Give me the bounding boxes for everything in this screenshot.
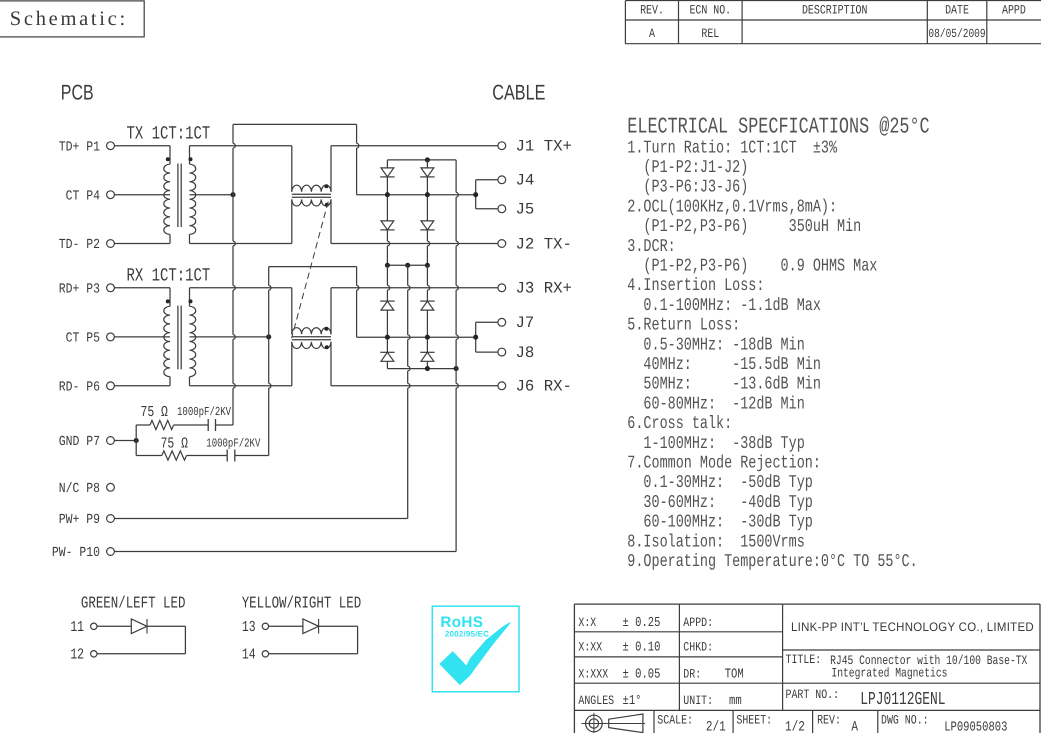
svg-text:TITLE:: TITLE: [786, 652, 822, 667]
wire RX secondary bottom to choke [190, 385, 292, 387]
wire R1 to C1 [174, 424, 209, 426]
svg-text:9.Operating Temperature:0°C TO: 9.Operating Temperature:0°C TO 55°C. [627, 552, 917, 572]
wire P6 to RX primary bottom [114, 385, 170, 387]
junction RX centre tap / bus [266, 334, 271, 339]
diode D5 [380, 301, 394, 310]
svg-text:ECN NO.: ECN NO. [689, 2, 731, 17]
svg-text:LPJ0112GENL: LPJ0112GENL [860, 690, 945, 710]
svg-text:PCB: PCB [61, 81, 94, 105]
RoHS 2002/95/EC logo with checkmark [432, 606, 519, 692]
svg-text:2.OCL(100KHz,0.1Vrms,8mA):: 2.OCL(100KHz,0.1Vrms,8mA): [627, 197, 837, 217]
wire R2 to C2 [187, 455, 228, 457]
svg-text:TOM: TOM [725, 667, 744, 682]
svg-text:APPD:: APPD: [683, 615, 713, 630]
label C2 1000pF/2KV [206, 437, 261, 451]
wire 12 return [97, 653, 185, 655]
junction bottom rail / chain right [425, 366, 430, 371]
svg-text:0.1-100MHz: -1.1dB Max: 0.1-100MHz: -1.1dB Max [627, 296, 821, 316]
svg-text:SHEET:: SHEET: [736, 713, 772, 728]
svg-text:5.Return Loss:: 5.Return Loss: [627, 316, 740, 336]
pin 13 [262, 623, 268, 629]
svg-text:2/1: 2/1 [706, 720, 726, 733]
pin P8 (N/C P8) [59, 482, 115, 497]
wire upper bridge top rail [387, 159, 456, 161]
pin J7 (J7) [498, 314, 534, 332]
wire TX bridge centre node row [357, 194, 476, 196]
svg-text:REV:: REV: [817, 713, 841, 728]
title box 'Schematic:' [0, 1, 144, 37]
svg-text:APPD: APPD [1002, 2, 1026, 17]
svg-text:1.Turn Ratio: 1CT:1CT ±3%: 1.Turn Ratio: 1CT:1CT ±3% [627, 138, 837, 158]
wire RX top rail [269, 266, 357, 268]
svg-text:mm: mm [729, 694, 742, 709]
svg-text:11: 11 [70, 618, 84, 636]
svg-text:DR:: DR: [683, 666, 701, 681]
resistor R1 75ohm [150, 420, 174, 429]
svg-text:J1 TX+: J1 TX+ [516, 138, 572, 156]
label CABLE [492, 81, 545, 105]
svg-text:A: A [851, 720, 858, 733]
svg-text:1000pF/2KV: 1000pF/2KV [206, 437, 261, 451]
svg-text:1/2: 1/2 [785, 720, 805, 733]
wire P1 to TX primary top [114, 145, 170, 147]
svg-text:(P1-P2,P3-P6) 350uH Min: (P1-P2,P3-P6) 350uH Min [627, 217, 861, 237]
LED D9 (green/left) [131, 619, 147, 634]
wire C1 to TX bus [216, 424, 234, 426]
electrical specifications text block [627, 114, 929, 572]
svg-text:GREEN/LEFT LED: GREEN/LEFT LED [81, 593, 186, 612]
choke L2 (RX common-mode choke) [292, 288, 331, 386]
svg-text:GND P7: GND P7 [59, 435, 100, 450]
transformer T1 (TX 1CT:1CT) [164, 146, 196, 244]
diode D8 [420, 352, 434, 361]
wire LED2 to corner [319, 626, 358, 654]
svg-text:40MHz: -15.5dB Min: 40MHz: -15.5dB Min [627, 355, 821, 375]
svg-text:Integrated Magnetics: Integrated Magnetics [831, 666, 947, 681]
svg-text:SCALE:: SCALE: [657, 713, 693, 728]
wire TX rail drop to bridge node [357, 124, 359, 194]
svg-text:0.5-30MHz: -18dB Min: 0.5-30MHz: -18dB Min [627, 335, 804, 355]
wire LED1 to corner [147, 626, 185, 654]
label 12 [70, 646, 84, 664]
wire diode chain left (upper bridge) [387, 160, 389, 265]
svg-text:DATE: DATE [945, 2, 969, 17]
junction node row / chain right [425, 192, 430, 197]
wire 14 return [269, 653, 358, 655]
svg-text:J5: J5 [516, 201, 535, 219]
svg-text:UNIT:: UNIT: [683, 693, 713, 708]
pin J4 (J4) [498, 172, 534, 190]
wire RX bridge centre node row [357, 336, 476, 338]
wire choke to J1 (TX+) [331, 145, 498, 147]
svg-text:TD- P2: TD- P2 [59, 238, 100, 253]
pin J6 (J6 RX-) [498, 378, 572, 396]
label R2 75ohm [161, 435, 188, 453]
wire middle vertical to PW+ [408, 265, 410, 518]
wire P2 to TX primary bottom [114, 243, 170, 245]
svg-text:CT P5: CT P5 [66, 332, 100, 347]
wire lower bridge bottom rail [387, 368, 456, 370]
junction mid rail right [425, 263, 430, 268]
svg-text:Schematic:: Schematic: [10, 8, 128, 30]
pin P10 (PW- P10) [52, 546, 115, 561]
wire GND down branch [136, 441, 162, 456]
svg-text:CABLE: CABLE [492, 81, 545, 105]
wire TX secondary bottom to choke [190, 243, 292, 245]
LED D10 (yellow/right) [303, 619, 319, 634]
wire TX centre-tap bus (vertical) [233, 124, 235, 425]
label YELLOW/RIGHT LED [242, 593, 362, 612]
svg-text:CHKD:: CHKD: [683, 640, 713, 655]
diode D2 [380, 221, 394, 230]
svg-text:14: 14 [242, 646, 256, 664]
svg-text:ANGLES: ANGLES [578, 693, 614, 708]
wire choke to J6 (RX-) [331, 385, 498, 387]
wire J4/J5 bracket [476, 180, 498, 209]
pin P6 (RD- P6) [59, 381, 115, 396]
svg-text:0.1-30MHz: -50dB Typ: 0.1-30MHz: -50dB Typ [627, 473, 813, 493]
svg-text:RoHS: RoHS [440, 614, 483, 631]
wire choke to J2 (TX-) [331, 243, 498, 245]
wire TX secondary centre tap to bus [190, 194, 234, 196]
wire PW+ P9 run [114, 518, 407, 520]
label PCB [61, 81, 94, 105]
wire C2 to RX bus [235, 455, 269, 457]
wire RX centre-tap bus (vertical) [269, 267, 271, 456]
transformer T1 label TX 1CT:1CT [127, 124, 211, 145]
junction RX node row / chain right [425, 335, 430, 340]
svg-text:X:XX: X:XX [578, 640, 602, 655]
choke L1 (TX common-mode choke) [292, 146, 331, 244]
svg-text:1000pF/2KV: 1000pF/2KV [177, 405, 232, 419]
svg-text:2002/95/EC: 2002/95/EC [445, 630, 489, 639]
wire diode chain right (lower bridge) [427, 265, 429, 368]
svg-text:J7: J7 [516, 314, 535, 332]
svg-text:ELECTRICAL SPECFICATIONS @25°C: ELECTRICAL SPECFICATIONS @25°C [627, 114, 929, 140]
svg-text:75 Ω: 75 Ω [141, 403, 168, 421]
wire 11 to LED1 [97, 625, 131, 627]
capacitor C2 1000pF/2KV [227, 450, 235, 462]
wire PW- P10 run [114, 551, 456, 553]
pin P7 (GND P7) [59, 435, 115, 450]
svg-text:J2 TX-: J2 TX- [516, 235, 572, 253]
svg-text:4.Insertion Loss:: 4.Insertion Loss: [627, 276, 764, 296]
label 11 [70, 618, 84, 636]
wire choke to J3 (RX+) [331, 287, 498, 289]
svg-text:YELLOW/RIGHT LED: YELLOW/RIGHT LED [242, 593, 362, 612]
pin 14 [262, 651, 268, 657]
label GREEN/LEFT LED [81, 593, 186, 612]
pin J2 (J2 TX-) [498, 235, 572, 253]
svg-text:8.Isolation: 1500Vrms: 8.Isolation: 1500Vrms [627, 532, 804, 552]
pin P2 (TD- P2) [59, 238, 115, 253]
wire right vertical (bridge top to PW-) [456, 160, 458, 552]
wire diode chain right (upper bridge) [427, 160, 429, 265]
junction TX centre tap / bus [230, 192, 235, 197]
junction J4/J5 bracket node [473, 192, 478, 197]
transformer T2 (RX 1CT:1CT) [164, 288, 196, 386]
label C1 1000pF/2KV [177, 405, 232, 419]
svg-text:12: 12 [70, 646, 84, 664]
svg-text:REV.: REV. [640, 2, 664, 17]
svg-text:60-80MHz: -12dB Min: 60-80MHz: -12dB Min [627, 394, 804, 414]
pin J8 (J8) [498, 344, 534, 362]
wire diode chain left (lower bridge) [387, 265, 389, 368]
junction GND split [134, 438, 139, 443]
dashed line between choke polarity dots [292, 202, 329, 339]
wire mid rail with three junctions [387, 264, 427, 266]
svg-text:± 0.10: ± 0.10 [623, 641, 661, 656]
junction mid rail left [385, 263, 390, 268]
pin P3 (RD+ P3) [59, 283, 115, 298]
svg-text:TD+ P1: TD+ P1 [59, 140, 100, 155]
svg-text:RX 1CT:1CT: RX 1CT:1CT [127, 266, 211, 287]
pin J3 (J3 RX+) [498, 280, 572, 298]
wire RX secondary centre tap to bus [190, 336, 269, 338]
svg-text:PART NO.:: PART NO.: [786, 687, 840, 702]
wire GND up branch [136, 425, 150, 441]
label 13 [242, 618, 256, 636]
svg-text:± 0.25: ± 0.25 [623, 616, 661, 631]
svg-text:TX 1CT:1CT: TX 1CT:1CT [127, 124, 211, 145]
svg-text:6.Cross talk:: 6.Cross talk: [627, 414, 732, 434]
title block table with projection symbol [574, 604, 1040, 733]
diode D3 [420, 168, 434, 177]
junction upper bridge top rail [425, 157, 430, 162]
junction mid rail centre [405, 263, 410, 268]
wire P5 to RX primary centre tap [114, 336, 170, 338]
svg-text:J4: J4 [516, 172, 535, 190]
svg-text:± 0.05: ± 0.05 [623, 667, 661, 682]
wire TX secondary top to choke [190, 145, 292, 147]
svg-text:X:X: X:X [578, 615, 596, 630]
pin P1 (TD+ P1) [59, 140, 115, 155]
pin J1 (J1 TX+) [498, 138, 572, 156]
junction bottom rail / right vertical [454, 366, 459, 371]
svg-text:CT P4: CT P4 [66, 189, 100, 204]
svg-text:PW+ P9: PW+ P9 [59, 513, 100, 528]
pin 11 [91, 623, 97, 629]
svg-text:RD- P6: RD- P6 [59, 381, 100, 396]
label R1 75ohm [141, 403, 168, 421]
svg-text:PW- P10: PW- P10 [52, 546, 100, 561]
junction node row / chain left [385, 192, 390, 197]
svg-text:08/05/2009: 08/05/2009 [928, 27, 985, 41]
svg-text:13: 13 [242, 618, 256, 636]
pin P9 (PW+ P9) [59, 513, 115, 528]
pin J5 (J5) [498, 201, 534, 219]
resistor R2 75ohm [162, 451, 187, 460]
svg-text:3.DCR:: 3.DCR: [627, 237, 675, 257]
svg-text:LINK-PP INT’L TECHNOLOGY CO.,: LINK-PP INT’L TECHNOLOGY CO., LIMITED [791, 620, 1034, 634]
wire 13 to LED2 [269, 625, 303, 627]
diode D6 [380, 352, 394, 361]
svg-text:(P1-P2:J1-J2): (P1-P2:J1-J2) [627, 158, 748, 178]
svg-text:(P1-P2,P3-P6) 0.9 OHMS Max: (P1-P2,P3-P6) 0.9 OHMS Max [627, 257, 877, 277]
svg-text:REL: REL [701, 26, 719, 41]
svg-text:LP09050803: LP09050803 [944, 721, 1007, 733]
diode D4 [420, 221, 434, 230]
svg-text:X:XXX: X:XXX [578, 666, 608, 681]
capacitor C1 1000pF/2KV [208, 419, 215, 431]
svg-text:RD+ P3: RD+ P3 [59, 283, 100, 298]
diode D7 [420, 301, 434, 310]
wire P3 to RX primary top [114, 287, 170, 289]
wire P4 to TX primary centre tap [114, 194, 170, 196]
svg-text:(P3-P6:J3-J6): (P3-P6:J3-J6) [627, 178, 748, 198]
svg-text:J6 RX-: J6 RX- [516, 378, 572, 396]
svg-text:60-100MHz: -30dB Typ: 60-100MHz: -30dB Typ [627, 513, 813, 533]
wire TX top rail [233, 123, 357, 125]
svg-text:50MHz: -13.6dB Min: 50MHz: -13.6dB Min [627, 375, 821, 395]
svg-text:75 Ω: 75 Ω [161, 435, 188, 453]
junction J7/J8 bracket node [473, 335, 478, 340]
wire GND P7 to junction [114, 440, 136, 442]
pin P4 (CT P4) [66, 189, 115, 204]
svg-text:DWG NO.:: DWG NO.: [881, 713, 929, 728]
transformer T2 label RX 1CT:1CT [127, 266, 211, 287]
wire RX rail drop to bridge node [357, 267, 359, 338]
svg-text:±1°: ±1° [623, 694, 642, 709]
svg-text:1-100MHz: -38dB Typ: 1-100MHz: -38dB Typ [627, 434, 804, 454]
pin P5 (CT P5) [66, 332, 115, 347]
svg-text:DESCRIPTION: DESCRIPTION [802, 2, 867, 17]
revision table (REV/ECN/DESCRIPTION/DATE/APPD) [625, 1, 1041, 44]
svg-text:30-60MHz: -40dB Typ: 30-60MHz: -40dB Typ [627, 493, 813, 513]
svg-text:N/C P8: N/C P8 [59, 482, 100, 497]
pin 12 [91, 651, 97, 657]
svg-text:J3 RX+: J3 RX+ [516, 280, 572, 298]
wire RX secondary top to choke [190, 287, 292, 289]
label 14 [242, 646, 256, 664]
svg-text:A: A [649, 26, 655, 41]
junction RX node row / chain left [385, 335, 390, 340]
svg-text:J8: J8 [516, 344, 535, 362]
wire J7/J8 bracket [476, 322, 498, 352]
svg-text:7.Common Mode Rejection:: 7.Common Mode Rejection: [627, 454, 821, 474]
diode D1 [380, 168, 394, 177]
